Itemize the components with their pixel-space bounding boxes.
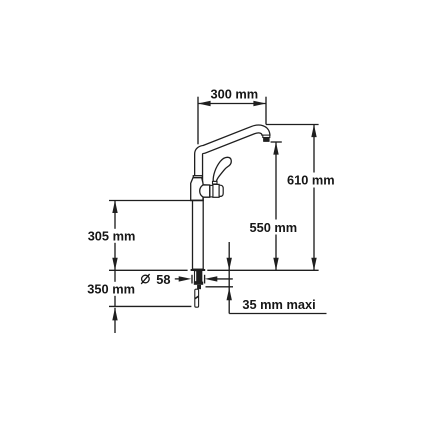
arrow 550mm up xyxy=(273,142,278,155)
arrow diameter58 pointing left xyxy=(205,276,218,281)
arrow 305mm up xyxy=(112,200,117,213)
svg-text:300 mm: 300 mm xyxy=(211,87,259,102)
faucet column xyxy=(193,201,204,270)
faucet body xyxy=(191,178,203,201)
faucet cartridge ball xyxy=(200,185,210,197)
text mask 610 xyxy=(285,173,337,188)
faucet aerator collar xyxy=(263,135,270,137)
wire ball-to-column right joint xyxy=(202,197,204,200)
faucet hose connector block xyxy=(197,285,201,289)
wire diameter 58 tick right xyxy=(204,275,206,284)
wire deck bottom line xyxy=(206,286,234,288)
faucet handle knuckle main band xyxy=(213,184,219,197)
wire 305mm top reference line xyxy=(109,200,203,202)
faucet handle joint ring xyxy=(210,185,213,197)
wire 550mm dimension line xyxy=(275,142,277,270)
faucet base flange xyxy=(191,269,206,271)
text mask 305 xyxy=(86,229,137,243)
faucet lever handle arm xyxy=(213,157,231,181)
faucet spout tube inner white xyxy=(199,129,266,182)
wire extension line right of 300mm dim xyxy=(265,97,267,125)
svg-text:550 mm: 550 mm xyxy=(250,220,298,235)
arrow 305mm down xyxy=(112,258,117,271)
faucet shank thread dark fill xyxy=(196,271,201,282)
faucet spout nut xyxy=(193,176,202,178)
wire diameter 58 right leader xyxy=(214,278,233,280)
wire deck line left segment xyxy=(109,269,188,271)
text mask 550 xyxy=(248,220,298,235)
faucet hose joint xyxy=(195,295,199,299)
svg-text:305 mm: 305 mm xyxy=(88,229,136,244)
arrow 300mm left xyxy=(198,101,211,106)
wire 300mm dimension line xyxy=(198,103,266,105)
wire 610mm top extension line xyxy=(266,124,319,126)
arrow 300mm right xyxy=(253,101,266,106)
wire 610mm dimension line xyxy=(313,125,315,271)
faucet shank outline xyxy=(195,271,202,282)
wire 350mm below-line arrow tail xyxy=(114,308,116,333)
arrow 350mm up below bottom line xyxy=(112,308,117,321)
arrow 610mm down xyxy=(311,258,316,271)
arrow 550mm down xyxy=(273,258,278,271)
faucet spout tube outline xyxy=(199,129,266,182)
faucet lever collar xyxy=(213,181,218,184)
text mask 350 xyxy=(86,282,137,296)
wire 550mm top tick xyxy=(271,141,282,143)
wire diameter 58 left leader xyxy=(175,278,184,280)
arrow 610mm up xyxy=(311,125,316,138)
wire 350mm bottom line xyxy=(109,305,191,307)
wire diameter 58 tick left xyxy=(191,275,193,284)
arrow diameter58 pointing right xyxy=(179,276,192,281)
faucet supply hose xyxy=(195,289,199,307)
arrow 35mm down at deck xyxy=(227,258,232,271)
svg-text:58: 58 xyxy=(156,272,170,287)
svg-text:350 mm: 350 mm xyxy=(87,281,135,296)
faucet shank nut xyxy=(194,282,203,285)
wire deck line right segment xyxy=(207,269,318,271)
wire 305/350mm dimension line xyxy=(114,200,116,306)
svg-text:610 mm: 610 mm xyxy=(287,173,335,188)
svg-text:35 mm maxi: 35 mm maxi xyxy=(242,297,315,312)
wire 35mm dim vertical xyxy=(228,242,230,314)
faucet handle knuckle right cap xyxy=(219,185,223,196)
wire 305mm reference line across column xyxy=(190,200,203,202)
faucet aerator tip xyxy=(263,137,270,142)
wire 35mm leader underline xyxy=(229,313,326,315)
wire extension line left of 300mm dim xyxy=(197,97,199,145)
arrow 35mm up at deck bottom xyxy=(227,288,232,301)
label diameter symbol xyxy=(142,275,150,283)
